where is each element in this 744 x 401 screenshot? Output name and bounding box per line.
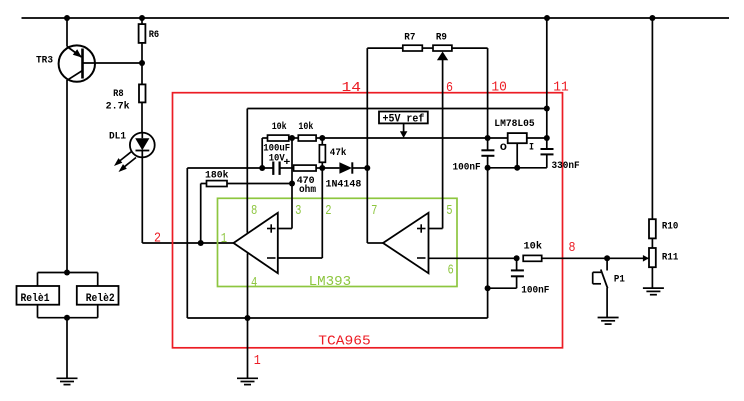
pin label 7 (green) [371,203,377,219]
node output line P1 tap [604,255,610,261]
ground relay [57,378,78,384]
svg-text:TR3: TR3 [36,56,53,67]
capacitor 100uF 10V [263,144,293,175]
svg-text:330nF: 330nF [552,161,580,172]
svg-text:5: 5 [446,203,452,219]
svg-text:R10: R10 [662,222,678,233]
node 47k top [319,135,325,141]
op-amp U1B comparator right [383,213,429,273]
node 100nF lower to ground line [485,285,491,291]
node pin2 wire / 180k tap [198,240,204,246]
potentiometer R11 [643,248,678,288]
capacitor 100nF lower [488,258,550,296]
resistor 10k upper-left [262,121,298,141]
svg-text:10: 10 [491,80,507,96]
wire pin10 line down to bottom rail [487,168,489,318]
wire +5V rail [322,137,507,139]
node diode cathode / comparator2 output [364,165,370,171]
svg-text:14: 14 [342,80,362,96]
svg-text:47k: 47k [330,147,347,159]
pin label 10 (red) [491,80,507,96]
resistor 47k [319,138,346,168]
node rail junction at R6 [139,15,145,21]
svg-text:2: 2 [325,203,331,219]
wire ground-side divider line [187,168,487,318]
node +5V rail / pin10 / 100nF [485,135,491,141]
svg-text:4: 4 [251,275,257,291]
wire regulator ground line [488,167,547,169]
diode 1N4148 [322,162,367,190]
svg-text:+: + [283,158,290,169]
svg-text:ohm: ohm [299,184,316,196]
svg-text:TCA965: TCA965 [318,334,371,350]
wire relays to ground [66,318,68,379]
node 180k to +input vertical [289,181,295,187]
svg-text:10k: 10k [272,121,287,133]
node pin4 ground rail junction [245,315,251,321]
svg-text:6: 6 [446,80,453,96]
pin label 3 (green) [295,203,301,219]
potentiometer R9 [433,33,488,61]
wire R9 right end down pin 10 [487,48,489,138]
pin label 2 (green) [325,203,331,219]
pushbutton P1 [593,258,625,317]
node divider left leg [259,165,265,171]
ground R11 [643,288,664,295]
svg-text:R11: R11 [662,253,678,264]
svg-text:R7: R7 [404,33,415,44]
wire DL1 cathode down and right to pin 2 [142,157,233,243]
node relay top junction [64,270,70,276]
svg-text:LM393: LM393 [309,274,352,290]
svg-text:8: 8 [251,203,257,219]
pin label 2 (red) [154,231,161,247]
svg-text:1: 1 [254,353,261,369]
wire pin 4 to ground rail [247,253,249,318]
svg-text:100nF: 100nF [521,286,549,297]
relay parallel wires [38,273,98,318]
resistor R6 [139,18,160,63]
svg-text:8: 8 [569,240,576,256]
wire top supply rail [22,17,730,19]
node regulator center pin ground [514,165,520,171]
relay Rele1 [17,286,60,305]
wire U1A +input to divider tap [278,138,292,229]
wire TR3 collector down to relays [66,80,68,273]
resistor 10k output [523,241,649,262]
node divider tap [289,135,295,141]
svg-text:100nF: 100nF [453,163,481,174]
svg-text:10k: 10k [524,241,543,253]
svg-text:11: 11 [553,80,569,96]
resistor R8 2.7k [106,63,146,133]
wire U1B output up pin 14 line [367,48,383,243]
pin label 8 (red) [569,240,576,256]
svg-text:R9: R9 [436,33,447,44]
IC box TCA965 (red) [173,93,563,348]
svg-text:180k: 180k [205,169,229,181]
pin label 4 (green) [251,275,257,291]
svg-text:R6: R6 [149,30,160,41]
svg-text:7: 7 [371,203,377,219]
regulator LM78L05 [494,119,547,168]
resistor R10 [649,18,678,248]
resistor 470 ohm [294,165,323,196]
node rail junction at R10 [649,15,655,21]
resistor 10k upper-right [298,121,322,141]
node 470/47k/diode [319,165,325,171]
node regulator input [544,135,550,141]
wire U1B +input to R9 wiper [429,57,443,229]
node rail junction at TR3 [64,15,70,21]
ground TCA965 pin 1 [237,378,258,384]
svg-text:O: O [500,143,507,154]
capacitor 330nF [541,149,580,172]
label LM393 [309,274,352,290]
op-amp U1A comparator left [234,213,278,273]
pin label 6 (green) [448,262,454,278]
pin label 11 (red) [553,80,569,96]
node base junction [139,60,145,66]
svg-text:3: 3 [295,203,301,219]
svg-text:I: I [529,142,534,153]
wire 10k1 left lead bend [261,138,263,168]
svg-text:10V: 10V [269,153,285,164]
transistor TR3 [36,45,142,81]
LED DL1 [109,132,155,173]
svg-text:Relè1: Relè1 [21,293,50,305]
svg-text:1: 1 [221,231,227,247]
pin label 14 (red) [342,80,362,96]
svg-text:P1: P1 [614,275,625,286]
pin label 8 (green) [251,203,257,219]
label TCA965 [318,334,371,350]
node pin8 line to pin11 line [544,106,550,112]
relay Rele2 [77,286,119,305]
svg-text:6: 6 [448,262,454,278]
wire rail to TR3 emitter [66,18,68,47]
svg-text:10k: 10k [298,121,313,133]
wire U1A -input to node [278,168,323,258]
pin label 5 (green) [446,203,452,219]
IC box LM393 (green) [218,198,458,286]
svg-text:2: 2 [154,231,161,247]
wire U1B -input line to right [429,257,517,259]
svg-text:Relè2: Relè2 [86,293,115,305]
svg-text:LM78L05: LM78L05 [494,119,534,130]
svg-text:1N4148: 1N4148 [326,179,362,190]
node 10k left / 100nF [514,255,520,261]
svg-text:DL1: DL1 [109,132,126,143]
wire pin 8 supply line [247,109,547,233]
resistor R7 [367,33,433,52]
wire pin 11 from rail [546,18,548,149]
pin label 1 (red) [254,353,261,369]
ground P1 [598,318,619,325]
svg-text:R8: R8 [113,89,124,100]
resistor 180k feedback [201,169,292,243]
reference box +5V ref [379,112,428,139]
node relay bottom junction [64,315,70,321]
svg-text:2.7k: 2.7k [106,100,130,112]
wire pin 1 to ground [247,318,249,378]
capacitor 100nF upper [453,138,495,174]
pin label 1 (green) [221,231,227,247]
node rail junction at pin 11 [544,15,550,21]
node regulator ground left [485,165,491,171]
pin label 6 (red) [446,80,453,96]
